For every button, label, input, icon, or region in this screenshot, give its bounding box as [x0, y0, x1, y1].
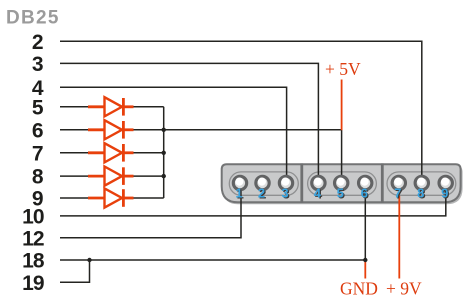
wire bus to J1 pin5 [164, 130, 342, 183]
J1 pin 3 socket [279, 176, 292, 189]
diode D3 [88, 143, 134, 162]
J1 pin 7 socket [392, 176, 405, 189]
J1 pin number 3 [281, 186, 289, 202]
J1 pin number 9 [441, 186, 449, 202]
J1 pin number 6 [361, 186, 369, 202]
svg-text:2: 2 [258, 186, 265, 201]
junction bus row6 [162, 128, 166, 132]
diode D2 [88, 120, 134, 139]
svg-text:3: 3 [32, 53, 44, 76]
J1 pin number 5 [337, 186, 345, 202]
wire diode cathode bus vertical [163, 107, 165, 198]
connector J1 inner stadium pins 1-3 [229, 172, 298, 195]
connector J1 inner stadium pins 4-6 [308, 172, 377, 195]
svg-text:10: 10 [22, 206, 44, 229]
wire DB25 pin6 to diode D2 anode [60, 129, 89, 131]
wire DB25 pin10 to J1 pin9 [60, 183, 446, 216]
svg-text:6: 6 [361, 186, 368, 201]
connector J1 inner stadium pins 7-9 [387, 172, 456, 195]
wire diode D5 cathode to bus [133, 197, 164, 199]
wire GND stub below junction [364, 260, 366, 279]
wire diode D3 cathode to bus [133, 152, 164, 154]
svg-text:9: 9 [441, 186, 448, 201]
svg-text:8: 8 [32, 166, 44, 189]
J1 pin number 4 [314, 186, 323, 202]
svg-text:6: 6 [32, 119, 44, 142]
svg-text:GND: GND [340, 278, 378, 298]
diode D1 [88, 97, 134, 116]
svg-text:1: 1 [235, 186, 242, 201]
svg-text:7: 7 [32, 142, 44, 165]
wire DB25 pin4 to J1 pin3 [60, 87, 287, 183]
svg-text:5: 5 [32, 96, 44, 119]
junction bus row7 [162, 151, 166, 155]
wire DB25 pin19 joining pin18 wire [60, 260, 90, 282]
svg-text:DB25: DB25 [6, 8, 60, 29]
wire diode D2 cathode to bus [133, 129, 164, 131]
svg-text:12: 12 [22, 227, 44, 250]
wire diode D1 cathode to bus [133, 106, 164, 108]
connector J1 shadow [224, 166, 463, 204]
connector J1 body shell [222, 164, 461, 202]
svg-text:5: 5 [337, 186, 344, 201]
svg-text:19: 19 [22, 272, 44, 295]
J1 pin 1 socket [233, 176, 246, 189]
wire GND node up to J1 pin6 [364, 183, 366, 260]
J1 pin 9 socket [439, 176, 452, 189]
connector J1 divider 1 [300, 163, 303, 203]
junction GND node [363, 258, 367, 262]
J1 pin number 7 [394, 186, 402, 202]
J1 pin number 2 [258, 186, 266, 202]
svg-text:8: 8 [417, 186, 424, 201]
junction pin18/19 [87, 258, 91, 262]
wire +5V supply lead [341, 80, 343, 131]
wire DB25 pin9 to diode D5 anode [60, 197, 89, 199]
svg-text:4: 4 [314, 186, 322, 201]
J1 pin 8 socket [415, 176, 428, 189]
svg-text:18: 18 [22, 250, 45, 273]
svg-text:+ 9V: + 9V [386, 278, 422, 298]
wire DB25 pin3 to J1 pin4 [60, 63, 318, 183]
J1 pin number 8 [417, 186, 425, 202]
J1 pin 6 socket [359, 176, 372, 189]
wire +9V supply lead from J1 pin7 [398, 196, 400, 279]
svg-text:7: 7 [394, 186, 401, 201]
wire DB25 pin18 to GND node [60, 259, 365, 261]
svg-text:+ 5V: + 5V [325, 59, 361, 79]
svg-text:3: 3 [281, 186, 288, 201]
diode D4 [88, 167, 134, 186]
connector J1 divider 2 [381, 163, 384, 203]
diode D5 [88, 188, 134, 207]
wire DB25 pin12 to J1 pin1 [60, 183, 241, 238]
J1 pin number 1 [235, 186, 243, 202]
junction bus row8 [162, 174, 166, 178]
wire DB25 pin8 to diode D4 anode [60, 175, 89, 177]
wire diode D4 cathode to bus [133, 175, 164, 177]
wire DB25 pin5 to diode D1 anode [60, 106, 89, 108]
svg-text:2: 2 [32, 31, 44, 54]
J1 pin 4 socket [312, 176, 325, 189]
J1 pin 2 socket [256, 176, 269, 189]
J1 pin 5 socket [335, 176, 348, 189]
wire DB25 pin2 to J1 pin8 [60, 41, 422, 183]
wire DB25 pin7 to diode D3 anode [60, 152, 89, 154]
